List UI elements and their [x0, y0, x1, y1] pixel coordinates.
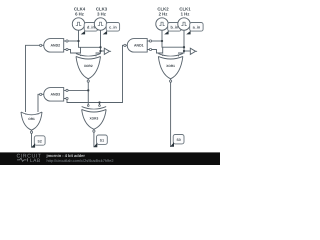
svg-text:XOR3: XOR3 [90, 116, 99, 120]
wire stub to indicator D2 [184, 50, 190, 52]
junction node d/AND2 [77, 40, 79, 42]
xor-gate XOR2 [76, 54, 101, 83]
svg-text:1 Hz: 1 Hz [181, 11, 190, 16]
svg-text:LAB: LAB [30, 158, 41, 164]
svg-text:c_in: c_in [109, 26, 117, 30]
clock source CLK2 [156, 18, 168, 30]
junction node a lower [183, 50, 185, 52]
footer bar [0, 152, 220, 165]
node flag S0 [170, 135, 184, 147]
svg-text:6 Hz: 6 Hz [75, 11, 84, 16]
wire XOR1 output down to S0 flag [170, 82, 172, 147]
svg-text:a_in: a_in [193, 26, 201, 30]
wire AND2 top input [66, 40, 79, 42]
CircuitLab logo [17, 154, 42, 164]
svg-text:S0: S0 [176, 138, 180, 142]
label CLK3 3 Hz [96, 7, 108, 17]
svg-text:d_in: d_in [87, 26, 95, 30]
and-gate AND1 [124, 39, 152, 53]
svg-text:S2: S2 [38, 139, 42, 143]
node flag c_in [103, 23, 120, 35]
wire AND1 bottom input jog [150, 50, 163, 54]
indicator D2 (triangle) [190, 48, 197, 54]
indicator D1 (triangle) [104, 48, 111, 54]
svg-text:3 Hz: 3 Hz [97, 11, 106, 16]
node flag S1 [93, 135, 107, 147]
wire AND3 output to OR1 right input [38, 94, 40, 114]
wire XOR2 output down to XOR3 left input [87, 82, 89, 107]
wire XOR2 left input riser [80, 47, 82, 56]
label CLK4 6 Hz [74, 7, 86, 17]
svg-text:AND3: AND3 [51, 93, 61, 97]
wire AND1 top input [150, 40, 162, 42]
svg-text:http://circuitlab.com/c/2s5kad: http://circuitlab.com/c/2s5kadbck7h9e2 [47, 158, 114, 163]
xor-gate XOR1 [158, 54, 183, 83]
svg-text:2 Hz: 2 Hz [159, 11, 168, 16]
junction node b/AND1 [161, 40, 163, 42]
wire XOR1 left input riser [162, 47, 164, 56]
svg-text:AND1: AND1 [134, 44, 144, 48]
svg-text:b_in: b_in [170, 26, 178, 30]
wire XOR3 right input stub [99, 103, 101, 107]
wire OR1 output down to S2 flag [31, 133, 33, 147]
svg-text:XOR2: XOR2 [84, 64, 93, 68]
wire AND2 output to OR1 left input [26, 45, 40, 114]
svg-text:XOR1: XOR1 [166, 64, 175, 68]
svg-text:AND2: AND2 [51, 44, 61, 48]
and-gate AND2 [40, 39, 68, 53]
wire stub to indicator D1 [101, 50, 105, 52]
junction node carry [98, 101, 100, 103]
wire carry net: AND1 output down and across to AND3 bottom input [67, 45, 124, 102]
wire AND3 top input from XOR2 output node [66, 89, 88, 91]
or-gate OR1 [21, 112, 42, 133]
wire net c: CLK3 down to XOR2 right input [96, 30, 101, 57]
node flag b_in [164, 23, 181, 35]
and-gate AND3 [40, 88, 68, 102]
svg-text:OR1: OR1 [28, 117, 35, 121]
xor-gate XOR3 [82, 105, 107, 133]
node flag S2 [31, 136, 45, 148]
svg-text:S1: S1 [100, 139, 104, 143]
wire net b: CLK2 down, across to CLK1 column [162, 30, 184, 47]
node flag d_in [81, 23, 98, 35]
junction node a upper [183, 46, 185, 48]
node flag a_in [186, 23, 203, 35]
wire net d: CLK4 down, across to CLK3 column [79, 30, 101, 47]
junction node c upper [99, 46, 101, 48]
label CLK2 2 Hz [157, 7, 169, 17]
clock source CLK1 [178, 18, 190, 30]
wire XOR3 output down to S1 flag [93, 132, 95, 147]
wire net a: CLK1 down to XOR1 right input [179, 30, 185, 57]
junction node sum1 [87, 89, 89, 91]
clock source CLK3 [94, 18, 106, 30]
clock source CLK4 [72, 18, 84, 30]
wire AND2 bottom input jog [66, 50, 81, 54]
label CLK1 1 Hz [179, 7, 191, 17]
junction node c lower [99, 50, 101, 52]
